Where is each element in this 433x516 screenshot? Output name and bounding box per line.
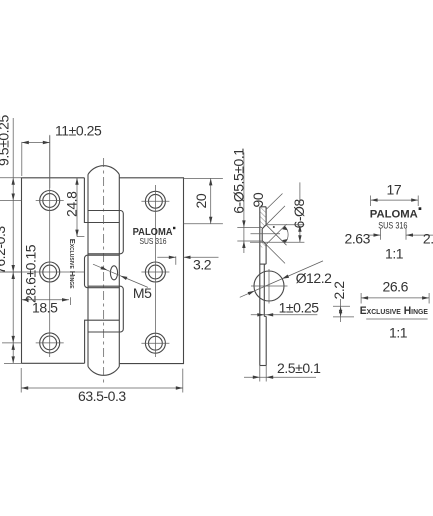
- pin right edge through circle: [263, 264, 265, 316]
- Ø12.2 leader line: [240, 261, 323, 297]
- crosshair top-right hole: [141, 200, 169, 202]
- svg-text:2.63: 2.63: [345, 231, 371, 247]
- dimension 6-Ø5.5 arrows: [242, 220, 245, 227]
- dimension 2.2 extension lines: [333, 306, 354, 317]
- dimension 3.2 tick: [175, 256, 177, 265]
- hole mid-right inner: [149, 265, 163, 279]
- circle vertical crosshair: [268, 269, 270, 304]
- barrel top arc: [88, 166, 119, 175]
- dimension 20 extension lines: [184, 178, 223, 223]
- svg-text:3.2: 3.2: [193, 256, 212, 272]
- svg-text:2.63: 2.63: [423, 231, 433, 247]
- crosshair mid-left hole: [0, 271, 85, 273]
- svg-text:76.2-0.3: 76.2-0.3: [0, 226, 8, 274]
- svg-text:2.5±0.1: 2.5±0.1: [277, 360, 321, 376]
- arrow down at top hole: [12, 194, 15, 201]
- registered mark: [419, 207, 422, 210]
- countersink lower cone edge: [262, 241, 266, 245]
- leaf section left edge: [259, 207, 261, 366]
- dimension 6-Ø5.5 line: [243, 153, 245, 254]
- svg-text:11±0.25: 11±0.25: [55, 123, 102, 139]
- leaf below knuckle right edge: [265, 316, 267, 365]
- svg-text:1±0.25: 1±0.25: [279, 299, 320, 315]
- dimension 17 line: [371, 199, 419, 201]
- svg-text:PALOMA: PALOMA: [370, 209, 418, 221]
- dimension 26.6 extension ticks: [361, 293, 429, 304]
- dimension 18.5 arrows: [22, 298, 29, 301]
- hole top-right inner: [149, 194, 163, 208]
- Ø12.2 leader arrows: [248, 291, 255, 295]
- crosshair bottom-left hole: [36, 342, 64, 344]
- dimension 9.5 / 76.2 shared line: [12, 118, 14, 363]
- dimension 17 extension ticks: [371, 196, 419, 207]
- pin jog tick: [264, 315, 266, 317]
- hole top-left outer: [40, 191, 60, 211]
- dimension 1±0.25 line: [251, 314, 318, 316]
- pin step tick: [260, 263, 266, 265]
- barrel bottom arc: [88, 367, 119, 376]
- knuckle circle: [254, 271, 284, 301]
- leaf section right edge (interrupted by countersink mouth): [265, 207, 267, 264]
- dimension 6-Ø5.5 extension lines: [237, 227, 262, 241]
- dimension 20 arrows: [209, 178, 212, 185]
- countersink axis crosshair: [251, 233, 281, 235]
- dimension 3.2 arrows: [169, 256, 176, 259]
- dimension 2.5±0.1 line: [244, 376, 316, 378]
- svg-text:M5: M5: [133, 285, 152, 301]
- left leaf top knuckle curl: [84, 178, 119, 223]
- arrow down at plate bottom: [12, 356, 15, 363]
- lower right knuckle box: [88, 286, 123, 332]
- hole mid-left outer: [40, 262, 60, 282]
- extension line top hole level: [0, 200, 22, 202]
- dimension 11±0.25 arrows: [22, 141, 29, 144]
- dimension 11±0.25 line: [22, 142, 50, 144]
- 90 deg angle arc: [285, 226, 288, 243]
- extension line plate top to left margin: [0, 177, 22, 179]
- hole bottom-left inner: [43, 336, 57, 350]
- M5 leader arrows: [100, 266, 107, 270]
- dimension 2.2 arrows: [339, 306, 342, 313]
- dimension 20 line: [210, 178, 212, 223]
- dimension 63.5-0.3 extension lines: [21, 368, 183, 393]
- top corner diagonal: [266, 194, 282, 210]
- stamp margin ticks: [381, 229, 407, 240]
- svg-text:SUS 316: SUS 316: [140, 236, 167, 246]
- hole bottom-right inner: [149, 336, 163, 350]
- crosshair mid-right hole: [141, 271, 169, 273]
- right leaf plate outline: [119, 178, 183, 364]
- hole mid-right outer: [145, 262, 165, 282]
- dimension 18.5 end tick: [69, 297, 71, 305]
- crosshair bottom-right hole: [141, 342, 169, 344]
- svg-text:Exclusive Hinge: Exclusive Hinge: [360, 305, 428, 317]
- hole bottom-right outer: [145, 333, 165, 353]
- countersink vertex dot: [273, 226, 275, 228]
- leaf section top edge: [260, 206, 266, 208]
- svg-text:90: 90: [250, 192, 266, 207]
- bottom extension ticks: [260, 366, 266, 382]
- arrow up at plate top: [12, 178, 15, 185]
- svg-text:Ø12.2: Ø12.2: [296, 270, 333, 286]
- svg-text:18.5: 18.5: [32, 300, 58, 316]
- hole mid-left inner: [43, 265, 57, 279]
- bowtie arrows at bottom hole: [12, 336, 15, 343]
- dimension 17 arrows: [371, 198, 378, 201]
- upper right knuckle box: [88, 211, 123, 254]
- barrel right edge: [118, 175, 120, 367]
- dimension 24.8 line: [76, 178, 78, 237]
- extension line plate bottom level: [4, 362, 22, 364]
- dimension 63.5-0.3 arrows: [21, 386, 28, 389]
- upper hatch area: [260, 207, 266, 229]
- dimension 2.5±0.1 arrows: [253, 376, 260, 379]
- dimension 24.8 arrows: [75, 178, 78, 185]
- svg-text:6-Ø5.5±0.1: 6-Ø5.5±0.1: [230, 148, 246, 214]
- dimension 63.5-0.3 line: [21, 387, 183, 389]
- dimension 6-Ø8 extension lines: [250, 225, 304, 243]
- svg-text:1:1: 1:1: [389, 325, 408, 341]
- pin bottom edge: [260, 365, 266, 367]
- countersink upper cone edge: [262, 225, 266, 229]
- dimension 2.2 line: [340, 299, 342, 322]
- M5 set-screw oval slot: [110, 266, 117, 280]
- hole top-left inner: [43, 194, 57, 208]
- dimension 26.6 arrows: [361, 296, 368, 299]
- dimension 11±0.25 extension lines: [22, 135, 50, 188]
- dimension 18.5 line: [22, 299, 70, 301]
- left leaf bottom knuckle curl: [85, 320, 120, 363]
- dimension 2.63 left line and arrow: [368, 234, 381, 236]
- bowtie arrows at mid hole: [12, 265, 15, 272]
- barrel centerline (dashed): [103, 158, 105, 385]
- svg-text:28.6±0.15: 28.6±0.15: [23, 244, 39, 303]
- crosshair top-left hole: [36, 200, 64, 202]
- circle horizontal crosshair: [251, 285, 288, 287]
- right hole column centerline: [154, 185, 156, 357]
- left hole column centerline: [49, 136, 51, 357]
- svg-text:9.5±0.25: 9.5±0.25: [0, 115, 12, 166]
- dimension 2.63 right line and arrow: [406, 234, 433, 236]
- M5 leader line: [93, 264, 148, 287]
- svg-text:1:1: 1:1: [385, 245, 404, 261]
- extension line mid hole level: [0, 271, 22, 273]
- left leaf plate outline: [22, 178, 85, 363]
- svg-text:24.8: 24.8: [64, 191, 80, 217]
- hole bottom-left outer: [40, 333, 60, 353]
- svg-text:2.2: 2.2: [331, 281, 347, 300]
- hole wall: [261, 229, 263, 241]
- svg-text:SUS 316: SUS 316: [378, 220, 407, 230]
- svg-text:26.6: 26.6: [383, 279, 409, 295]
- svg-text:17: 17: [387, 182, 402, 198]
- svg-text:20: 20: [193, 193, 209, 208]
- stamp underline: [366, 318, 427, 320]
- dimension 1±0.25 arrows: [257, 313, 264, 316]
- lower hatch area: [260, 241, 266, 248]
- svg-text:Exclusive Hinge: Exclusive Hinge: [68, 239, 77, 289]
- svg-text:6-Ø8: 6-Ø8: [291, 199, 307, 229]
- extension line bottom hole level: [2, 342, 22, 344]
- dimension 26.6 line: [361, 297, 429, 299]
- dimension 6-Ø8 arrows: [298, 225, 301, 232]
- registered mark: [173, 227, 175, 229]
- dimension 6-Ø8 line: [299, 182, 301, 242]
- countersink 90 deg rays: [266, 206, 286, 264]
- svg-text:63.5-0.3: 63.5-0.3: [78, 388, 126, 404]
- barrel left edge: [87, 175, 89, 367]
- angle arc arrowheads: [282, 226, 287, 230]
- hole top-right outer: [145, 191, 165, 211]
- middle left knuckle box: [85, 255, 120, 288]
- dimension 3.2 lines: [157, 256, 218, 258]
- dimension 24.8 extension tick: [77, 236, 84, 238]
